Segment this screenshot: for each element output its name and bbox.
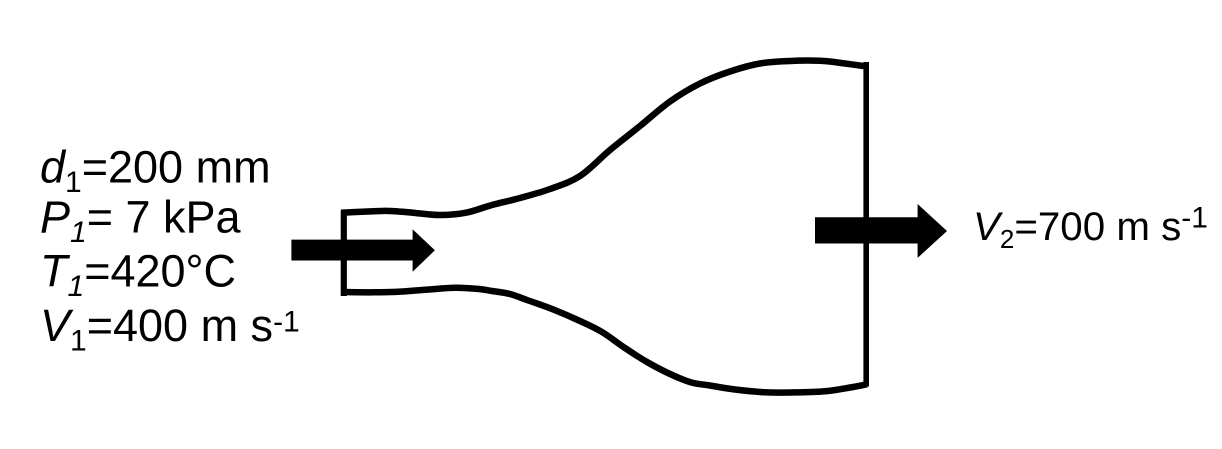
outlet flow arrow V2 xyxy=(815,204,947,258)
svg-text:P1= 7 kPa: P1= 7 kPa xyxy=(40,192,242,250)
nozzle bottom wall curve xyxy=(341,288,867,393)
svg-text:V2=700 m s-1: V2=700 m s-1 xyxy=(973,202,1208,254)
svg-text:V1=400 m s-1: V1=400 m s-1 xyxy=(40,300,300,358)
outlet plane vertical line xyxy=(863,62,869,387)
nozzle top wall curve xyxy=(341,61,867,215)
svg-text:T1=420°C: T1=420°C xyxy=(40,246,236,304)
svg-text:d1=200 mm: d1=200 mm xyxy=(40,141,271,199)
inlet plane vertical line xyxy=(341,212,347,297)
inlet flow arrow V1 xyxy=(291,229,435,271)
